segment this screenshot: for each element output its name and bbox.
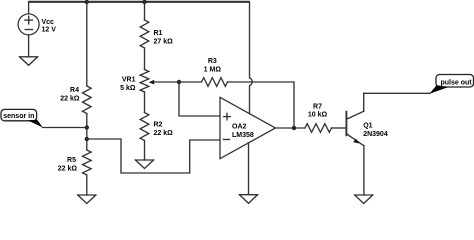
svg-text:27 kΩ: 27 kΩ [154, 39, 174, 46]
svg-text:Vcc: Vcc [42, 19, 55, 26]
ground below op-amp [239, 195, 257, 204]
callout pulse out [430, 75, 474, 94]
potentiometer VR1 5k [120, 70, 179, 93]
callout sensor in [1, 109, 43, 127]
svg-text:VR1: VR1 [122, 77, 136, 84]
wire sensor in to junction [43, 127, 87, 129]
wire R1 to VR1 [144, 48, 146, 70]
wire inverting input path [87, 139, 220, 173]
resistor R3 1M [179, 58, 228, 86]
wire V- pin of op-amp [248, 143, 250, 195]
svg-text:R7: R7 [313, 104, 322, 111]
wire op-amp output [275, 127, 305, 129]
wire top supply rail [29, 1, 250, 3]
wire rail to R4 [86, 2, 88, 86]
transistor Q1 2N3904 [346, 93, 387, 146]
svg-text:OA2: OA2 [232, 123, 247, 130]
node dot inverting branch junction [85, 137, 89, 141]
wire collector to pulse out [364, 92, 430, 94]
wire rail to R1 [144, 2, 146, 20]
wire V+ pin of op-amp with hop over R3 [250, 2, 253, 114]
resistor R2 22k [140, 113, 173, 141]
wire VR1 to R2 [144, 92, 146, 113]
node dot feedback/output [292, 126, 296, 130]
resistor R1 27k [140, 20, 173, 48]
node dot rail/R1 [142, 0, 146, 4]
svg-text:pulse out: pulse out [441, 79, 473, 86]
svg-text:LM358: LM358 [232, 132, 254, 139]
svg-text:Q1: Q1 [363, 123, 372, 130]
wire emitter to ground [363, 146, 365, 195]
svg-text:22 kΩ: 22 kΩ [58, 166, 78, 173]
op-amp OA2 LM358 [220, 97, 275, 158]
svg-text:12 V: 12 V [42, 27, 57, 34]
svg-text:R4: R4 [70, 87, 79, 94]
svg-text:22 kΩ: 22 kΩ [154, 130, 174, 137]
svg-text:R5: R5 [67, 157, 76, 164]
wire R7 to base [332, 127, 346, 129]
node dot rail/R4 [85, 0, 89, 4]
wire source to ground [28, 35, 30, 57]
svg-text:R1: R1 [154, 30, 163, 37]
resistor R4 22k [60, 86, 91, 114]
ground below R2 [135, 160, 153, 169]
node dot sensor junction [85, 125, 89, 129]
svg-text:R2: R2 [154, 122, 163, 129]
svg-text:10 kΩ: 10 kΩ [308, 112, 328, 119]
svg-text:R3: R3 [208, 58, 217, 65]
resistor R5 22k [58, 150, 91, 175]
ground below V1 [20, 57, 38, 66]
voltage source V1 Vcc [18, 2, 56, 35]
node A wiper junction dot [177, 80, 181, 84]
wire R3 feedback to output node [228, 82, 295, 128]
svg-text:1 MΩ: 1 MΩ [204, 66, 222, 73]
resistor R7 10k [305, 104, 332, 133]
wire R4 to node [86, 114, 88, 151]
svg-text:sensor in: sensor in [3, 113, 34, 120]
wire R2 to ground [144, 141, 146, 161]
ground below Q1 [355, 195, 373, 204]
svg-text:22 kΩ: 22 kΩ [60, 96, 80, 103]
svg-text:5 kΩ: 5 kΩ [120, 85, 136, 92]
ground below R5 [78, 195, 96, 204]
svg-text:2N3904: 2N3904 [363, 131, 388, 138]
wire R5 to ground [86, 175, 88, 195]
wire node A to op-amp plus input [179, 82, 220, 116]
